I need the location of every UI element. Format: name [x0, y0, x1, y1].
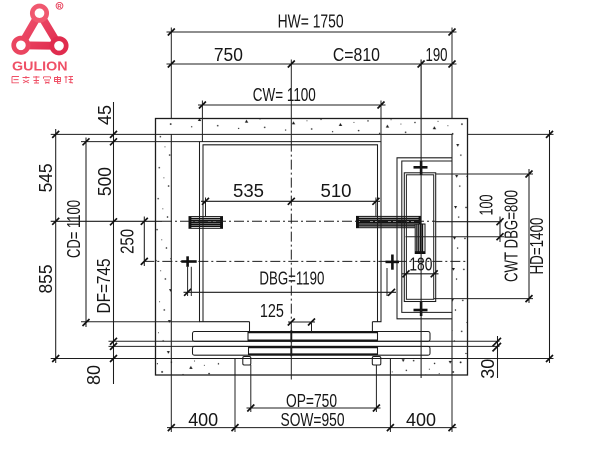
counterweight block inner [406, 175, 433, 299]
left dim CD=1100 [63, 138, 90, 328]
car toe step left [249, 322, 251, 332]
dim DBG=1190 [184, 267, 397, 296]
car toe step right [371, 322, 373, 332]
right dim 30 [477, 336, 501, 379]
dim SOW=950 and 400s [167, 409, 457, 431]
logo triangle [14, 6, 66, 53]
svg-text:855: 855 [35, 265, 56, 294]
shaft wall hatch bottom-right [390, 359, 468, 376]
svg-text:DBG=1190: DBG=1190 [259, 267, 324, 288]
shaft wall hatch bottom-left [156, 359, 236, 376]
dim 750 [167, 44, 457, 68]
rail extension lines to DBG dim [188, 267, 387, 296]
svg-text:400: 400 [406, 409, 436, 430]
sill center marks [290, 330, 292, 356]
svg-text:OP=750: OP=750 [286, 390, 337, 411]
svg-text:250: 250 [117, 229, 138, 254]
dim 180 counterweight [402, 254, 439, 278]
car sill bar [193, 332, 431, 342]
svg-text:30: 30 [477, 359, 498, 379]
svg-text:125: 125 [260, 300, 284, 321]
bottom extension lines [171, 365, 452, 432]
svg-text:180: 180 [409, 254, 432, 275]
door opening left jamb [234, 359, 236, 376]
shaft wall hatch right [452, 119, 468, 376]
counterweight block outer [404, 173, 435, 302]
dim 535 [201, 180, 380, 205]
dim 190 [426, 44, 456, 68]
svg-text:45: 45 [94, 105, 115, 125]
counterweight rail top [414, 166, 428, 169]
car guide rail right [386, 261, 400, 264]
shaft wall outer outline [156, 119, 468, 376]
dim C=810 [333, 44, 425, 68]
right dim CWT DBG=800 [501, 169, 533, 303]
counterweight frame outer inner line [402, 161, 452, 312]
svg-text:SOW=950: SOW=950 [281, 409, 345, 430]
svg-text:CW= 1100: CW= 1100 [253, 84, 316, 105]
svg-text:HW= 1750: HW= 1750 [278, 11, 344, 32]
car inner wall [203, 145, 378, 322]
svg-text:510: 510 [321, 180, 352, 201]
svg-text:HD=1400: HD=1400 [526, 218, 547, 275]
dim OP=750 [247, 390, 381, 412]
centerline horizontal upper [51, 220, 162, 222]
shaft wall inner face left [170, 134, 172, 375]
dim CW=1100 [198, 84, 386, 109]
svg-text:CD= 1100: CD= 1100 [63, 200, 84, 258]
svg-text:DF=745: DF=745 [93, 259, 114, 314]
rail bracket left hatched [189, 217, 223, 229]
car top extension line [81, 141, 200, 143]
svg-text:80: 80 [83, 365, 104, 385]
counterweight rail bottom [414, 309, 428, 312]
svg-text:100: 100 [476, 195, 497, 216]
svg-text:500: 500 [94, 167, 115, 196]
car guide rail left [181, 260, 196, 263]
counterweight frame outer [397, 158, 452, 319]
sill bar2 top extension line [109, 345, 500, 347]
logo chinese tagline [12, 76, 73, 83]
svg-text:545: 545 [35, 163, 56, 192]
dim 125 [260, 300, 315, 332]
left dim 45/500/DF745/80 line [83, 102, 117, 385]
counterweight bracket vertical hatched [415, 224, 425, 254]
left dim line outermost 545/855 [35, 129, 59, 363]
top extension lines [171, 28, 452, 142]
shaft wall inner face top HW line [51, 133, 452, 135]
car sill bold segment [248, 332, 378, 342]
landing sill bold segment [249, 346, 378, 355]
door opening right jamb [389, 359, 391, 376]
svg-text:400: 400 [188, 409, 218, 430]
shaft wall hatch left [156, 119, 172, 376]
svg-text:CWT DBG=800: CWT DBG=800 [501, 190, 522, 282]
car bottom extension line [81, 321, 200, 323]
right extension lines [406, 134, 554, 358]
svg-text:750: 750 [214, 44, 243, 65]
right dim HD=1400 [526, 130, 553, 363]
shaft wall inner face right [451, 134, 453, 375]
door jamb box left [243, 357, 251, 366]
dim 510 [321, 180, 380, 205]
left dim 250 [117, 217, 148, 267]
centerline vertical car [290, 60, 292, 142]
right dim 100 [476, 195, 504, 243]
logo registered mark [56, 2, 63, 10]
svg-text:190: 190 [426, 44, 448, 65]
shaft wall inner face bottom / sill line [51, 358, 468, 360]
bracket extension lines 535/510 [206, 198, 376, 217]
centerline vertical counterweight [420, 60, 422, 379]
rail bracket right hatched [357, 216, 422, 227]
sill bar1 bottom extension line [109, 340, 500, 342]
landing sill bar [193, 346, 431, 355]
svg-text:535: 535 [233, 180, 264, 201]
dim HW=1750 [167, 11, 457, 36]
car outer wall [200, 142, 382, 322]
svg-text:C=810: C=810 [333, 44, 380, 65]
svg-text:GULION: GULION [12, 60, 68, 74]
centerline horizontal rail axis [144, 260, 467, 262]
shaft wall hatch top [156, 119, 468, 135]
door jamb box right [372, 357, 381, 366]
